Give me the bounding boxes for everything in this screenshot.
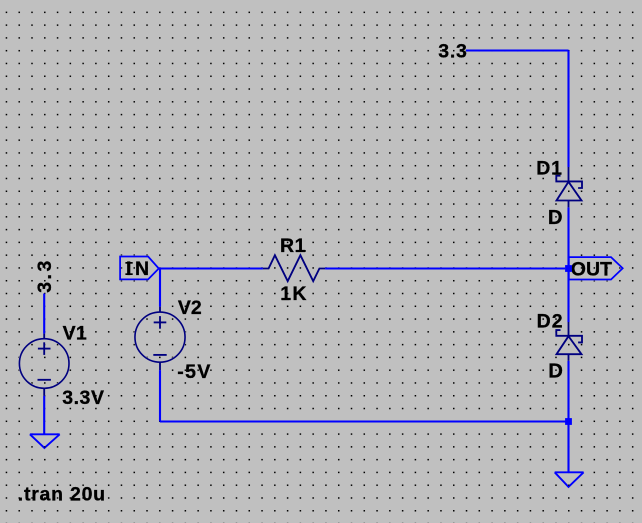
wire resistor to OUT junction: [325, 267, 565, 269]
ground (left): [30, 434, 60, 448]
svg-text:3.3V: 3.3V: [62, 387, 104, 409]
ground (right): [555, 472, 584, 487]
diode D2: [556, 322, 582, 361]
svg-text:V1: V1: [63, 322, 87, 344]
voltage source V1: [19, 334, 69, 396]
svg-text:.tran 20u: .tran 20u: [18, 483, 106, 505]
wire 3.3 label to V1: [43, 294, 45, 334]
svg-text:V2: V2: [178, 297, 202, 319]
svg-text:3.3: 3.3: [34, 258, 56, 293]
port flag IN: [120, 257, 159, 280]
wire D2 to bottom junction: [567, 361, 569, 422]
svg-text:3.3: 3.3: [438, 40, 468, 62]
svg-text:-5V: -5V: [177, 361, 212, 383]
port flag OUT: [569, 257, 623, 279]
grid dot over left ground apex: [44, 446, 46, 448]
wire right rail upper vertical: [567, 51, 569, 168]
erase dots under art: [19, 51, 622, 487]
svg-text:D: D: [548, 361, 563, 383]
svg-text:D2: D2: [537, 311, 564, 333]
wire D1 to OUT junction: [567, 207, 569, 268]
svg-text:IN: IN: [126, 258, 153, 280]
wire IN to resistor: [159, 267, 263, 269]
junction bottom right: [565, 418, 572, 425]
resistor R1: [263, 255, 325, 281]
svg-text:1K: 1K: [280, 283, 308, 305]
svg-text:D1: D1: [536, 158, 563, 180]
wire OUT junction to D2: [567, 268, 569, 322]
wire top horizontal from 3.3 label to right rail: [466, 49, 569, 51]
voltage source V2: [135, 307, 185, 370]
wire bottom rail: [160, 420, 569, 422]
svg-text:D: D: [548, 207, 563, 229]
diode D1: [556, 167, 582, 207]
wire V1 to ground: [43, 396, 45, 434]
wire V2 to bottom rail: [159, 370, 161, 421]
junction at OUT: [565, 265, 572, 272]
grid dot over right ground apex: [568, 485, 570, 487]
svg-text:R1: R1: [280, 235, 306, 257]
svg-text:OUT: OUT: [571, 259, 612, 281]
wire IN down to V2: [159, 269, 161, 307]
wire bottom junction to ground: [567, 422, 569, 473]
